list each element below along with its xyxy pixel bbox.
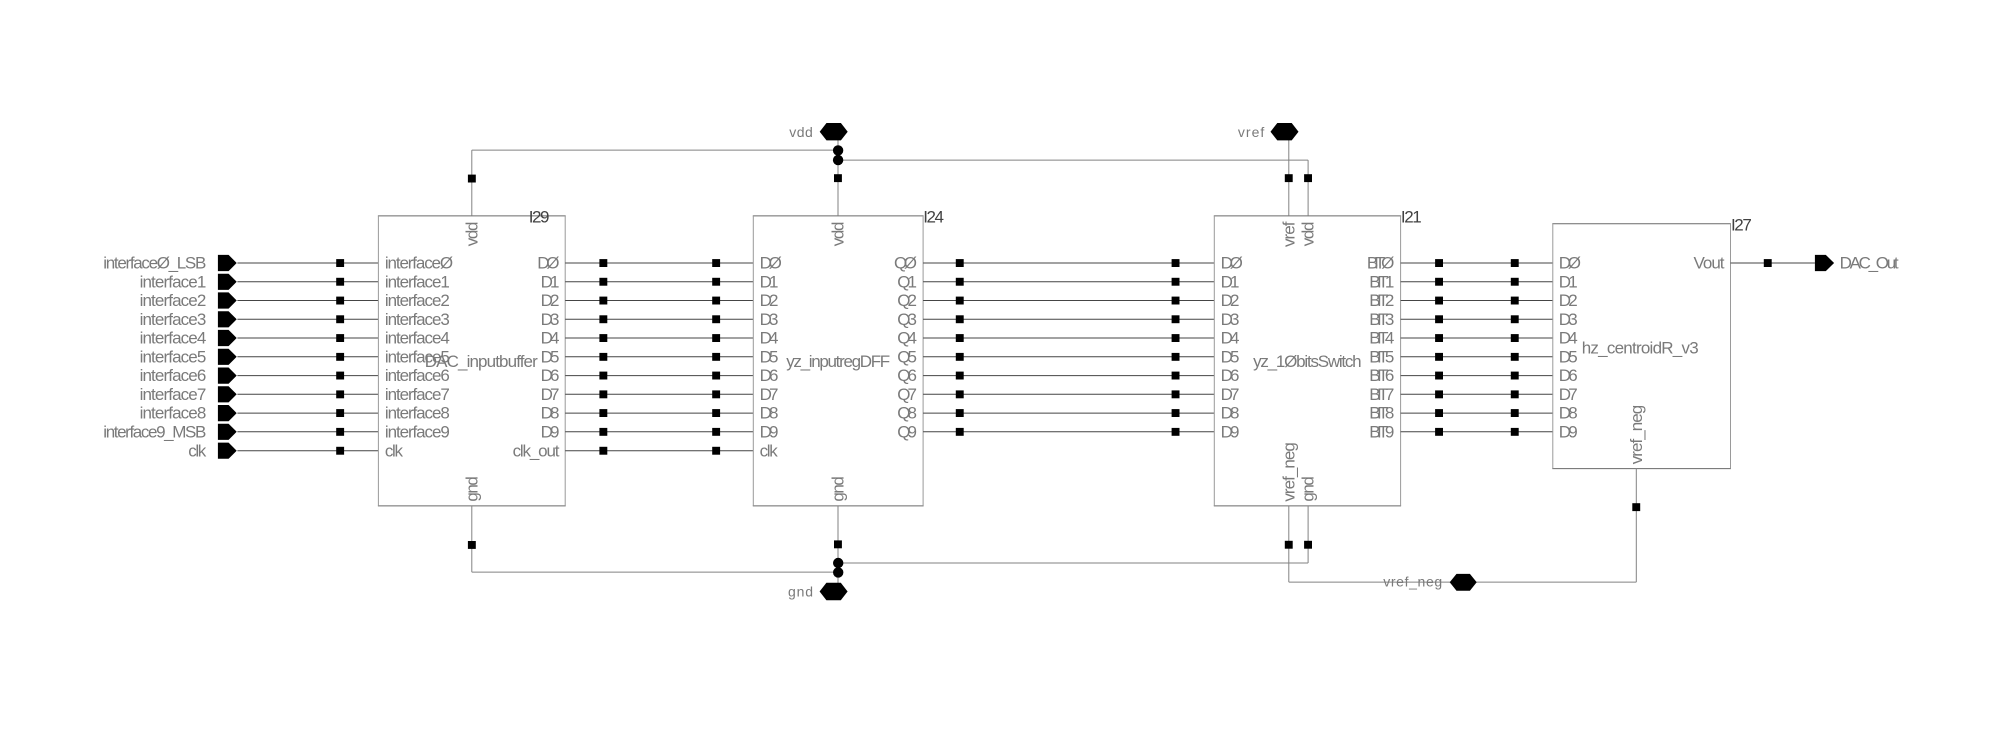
svg-text:clk: clk <box>385 441 404 460</box>
svg-text:D6: D6 <box>1221 366 1240 385</box>
junction square bus5 right <box>1172 353 1180 361</box>
wire gnd horizontal symbol to I21 <box>838 562 1308 564</box>
wire gnd fall I29 <box>471 506 473 572</box>
svg-text:vref: vref <box>1238 124 1265 140</box>
junction square bus1 right <box>1172 278 1180 286</box>
junction square bus9 right <box>1172 428 1180 436</box>
svg-text:interfaceØ_LSB: interfaceØ_LSB <box>103 254 206 273</box>
wire D1 I29 to I24 <box>565 281 753 283</box>
wire D8 I29 to I24 <box>565 412 753 414</box>
wire Q6/D6 I24 to I21 <box>923 375 1214 377</box>
svg-text:Q3: Q3 <box>897 310 917 329</box>
svg-text:D4: D4 <box>1559 329 1578 348</box>
wire interface6 to I29 <box>237 375 378 377</box>
svg-text:Q2: Q2 <box>897 291 917 310</box>
wire BIT2/D2 I21 to I27 <box>1401 300 1553 302</box>
junction square D3 right <box>712 315 720 323</box>
wire D9 I29 to I24 <box>565 431 753 433</box>
wire D4 I29 to I24 <box>565 337 753 339</box>
svg-text:D8: D8 <box>541 404 560 423</box>
input pin arrow interface1 <box>218 274 237 290</box>
junction square D1 right <box>712 278 720 286</box>
junction square out2 left <box>1435 297 1443 305</box>
power symbol vdd <box>820 123 848 140</box>
svg-text:D5: D5 <box>760 347 779 366</box>
svg-text:I27: I27 <box>1731 215 1752 234</box>
wire interface5 to I29 <box>237 356 378 358</box>
junction dot gnd lower <box>833 567 843 577</box>
wire vdd symbol stub <box>837 139 839 153</box>
junction square I21 vref_neg pin <box>1285 541 1293 549</box>
junction square out9 right <box>1511 428 1519 436</box>
input pin arrow interface2 <box>218 292 237 308</box>
svg-text:interface3: interface3 <box>385 310 450 329</box>
wire D2 I29 to I24 <box>565 300 753 302</box>
wire vdd riser I24 <box>837 150 839 216</box>
wire vdd riser I21 <box>1307 160 1309 216</box>
input pin arrow interface6 <box>218 368 237 384</box>
junction dot gnd upper <box>833 558 843 568</box>
junction square on wire interface2 <box>336 297 344 305</box>
junction square on wire interface4 <box>336 334 344 342</box>
junction square D5 left <box>599 353 607 361</box>
junction square D8 left <box>599 409 607 417</box>
svg-text:D1: D1 <box>1221 272 1240 291</box>
junction square out4 left <box>1435 334 1443 342</box>
svg-text:BIT4: BIT4 <box>1369 329 1394 348</box>
svg-text:D2: D2 <box>760 291 779 310</box>
svg-text:vdd: vdd <box>462 221 481 246</box>
svg-text:D1: D1 <box>1559 272 1578 291</box>
svg-text:interface9_MSB: interface9_MSB <box>103 422 206 441</box>
svg-text:vref_neg: vref_neg <box>1383 573 1442 589</box>
junction square bus2 left <box>956 297 964 305</box>
junction square bus7 right <box>1172 390 1180 398</box>
input pin arrow interface4 <box>218 330 237 346</box>
junction square out5 right <box>1511 353 1519 361</box>
wire vref_neg fall I21 <box>1288 506 1290 582</box>
wire Q4/D4 I24 to I21 <box>923 337 1214 339</box>
wire clk_out I29 to I24 <box>565 450 753 452</box>
wire vref_neg horizontal <box>1289 581 1637 583</box>
junction dot vdd upper <box>833 145 843 155</box>
junction square on wire interface8 <box>336 409 344 417</box>
junction square bus3 right <box>1172 315 1180 323</box>
input pin arrow clk <box>218 443 237 459</box>
junction square on wire interface9_MSB <box>336 428 344 436</box>
wire BIT1/D1 I21 to I27 <box>1401 281 1553 283</box>
junction square I29 gnd pin <box>468 541 476 549</box>
svg-text:D3: D3 <box>541 310 560 329</box>
power symbol vref <box>1271 123 1299 140</box>
wire BIT7/D7 I21 to I27 <box>1401 393 1553 395</box>
svg-text:clk: clk <box>760 441 779 460</box>
wire interface1 to I29 <box>237 281 378 283</box>
junction square out8 right <box>1511 409 1519 417</box>
svg-text:D8: D8 <box>1559 404 1578 423</box>
svg-text:BIT5: BIT5 <box>1369 347 1394 366</box>
svg-text:interface3: interface3 <box>140 310 207 329</box>
svg-text:interface2: interface2 <box>385 291 450 310</box>
input pin arrow interface7 <box>218 386 237 402</box>
wire BIT6/D6 I21 to I27 <box>1401 375 1553 377</box>
svg-text:D6: D6 <box>1559 366 1578 385</box>
wire interface3 to I29 <box>237 318 378 320</box>
svg-text:DAC_Out: DAC_Out <box>1840 254 1899 273</box>
junction square on wire interface0_LSB <box>336 259 344 267</box>
wire Q1/D1 I24 to I21 <box>923 281 1214 283</box>
svg-text:vdd: vdd <box>789 124 813 140</box>
junction square out3 left <box>1435 315 1443 323</box>
junction square I21 vref pin <box>1285 174 1293 182</box>
wire gnd fall I24 to symbol <box>837 506 839 584</box>
junction square bus6 right <box>1172 372 1180 380</box>
wire gnd fall I21 <box>1307 506 1309 563</box>
junction square bus1 left <box>956 278 964 286</box>
svg-text:D2: D2 <box>1559 291 1578 310</box>
junction square out3 right <box>1511 315 1519 323</box>
junction square I24 vdd pin <box>834 174 842 182</box>
svg-text:gnd: gnd <box>1299 476 1318 502</box>
wire interface8 to I29 <box>237 412 378 414</box>
svg-text:D4: D4 <box>541 329 560 348</box>
junction square I21 gnd pin <box>1304 541 1312 549</box>
wire BIT0/D0 I21 to I27 <box>1401 262 1553 264</box>
wire Q5/D5 I24 to I21 <box>923 356 1214 358</box>
svg-text:interface4: interface4 <box>140 329 207 348</box>
svg-text:vdd: vdd <box>829 221 848 246</box>
wire D5 I29 to I24 <box>565 356 753 358</box>
junction square on wire interface7 <box>336 390 344 398</box>
svg-text:vref_neg: vref_neg <box>1279 442 1298 502</box>
junction square bus7 left <box>956 390 964 398</box>
svg-text:interface8: interface8 <box>385 404 450 423</box>
block I21 yz_10bitsSwitch box <box>1214 215 1401 217</box>
svg-text:D7: D7 <box>760 385 779 404</box>
svg-text:D9: D9 <box>1221 422 1240 441</box>
junction square out9 left <box>1435 428 1443 436</box>
svg-text:interface5: interface5 <box>385 347 450 366</box>
svg-text:hz_centroidR_v3: hz_centroidR_v3 <box>1582 339 1699 358</box>
junction square bus6 left <box>956 372 964 380</box>
block I27 hz_centroidR_v3 box <box>1552 223 1731 225</box>
junction square clk_out right <box>712 447 720 455</box>
svg-text:BIT8: BIT8 <box>1369 404 1394 423</box>
svg-text:D6: D6 <box>541 366 560 385</box>
wire D3 I29 to I24 <box>565 318 753 320</box>
svg-text:BITØ: BITØ <box>1367 254 1395 273</box>
junction square bus2 right <box>1172 297 1180 305</box>
svg-text:D4: D4 <box>760 329 779 348</box>
svg-text:D3: D3 <box>760 310 779 329</box>
wire interface0_LSB to I29 <box>237 262 378 264</box>
junction square Vout <box>1764 259 1772 267</box>
junction square out8 left <box>1435 409 1443 417</box>
svg-text:interface6: interface6 <box>140 366 207 385</box>
svg-text:interface9: interface9 <box>385 422 450 441</box>
svg-text:D7: D7 <box>541 385 560 404</box>
junction square bus4 right <box>1172 334 1180 342</box>
junction square D6 right <box>712 372 720 380</box>
junction square out7 left <box>1435 390 1443 398</box>
junction square out0 left <box>1435 259 1443 267</box>
wire Q9/D9 I24 to I21 <box>923 431 1214 433</box>
svg-text:Q9: Q9 <box>897 422 917 441</box>
junction square bus4 left <box>956 334 964 342</box>
junction square D0 left <box>599 259 607 267</box>
svg-text:Q5: Q5 <box>897 347 917 366</box>
svg-text:interface8: interface8 <box>140 404 207 423</box>
input pin arrow interface5 <box>218 349 237 365</box>
svg-text:D8: D8 <box>760 404 779 423</box>
svg-text:DØ: DØ <box>760 254 782 273</box>
svg-text:D9: D9 <box>1559 422 1578 441</box>
junction square I21 vdd pin <box>1304 174 1312 182</box>
junction square out0 right <box>1511 259 1519 267</box>
input pin arrow interface3 <box>218 311 237 327</box>
wire vdd horizontal symbol to I21 <box>838 159 1308 161</box>
svg-text:BIT9: BIT9 <box>1369 422 1394 441</box>
svg-text:Q4: Q4 <box>897 329 917 348</box>
svg-text:D1: D1 <box>541 272 560 291</box>
wire vref riser I21 <box>1288 140 1290 216</box>
wire D6 I29 to I24 <box>565 375 753 377</box>
junction square D6 left <box>599 372 607 380</box>
svg-text:Q7: Q7 <box>897 385 917 404</box>
svg-text:interface1: interface1 <box>385 272 450 291</box>
junction square on wire interface6 <box>336 372 344 380</box>
junction square D0 right <box>712 259 720 267</box>
svg-text:BIT2: BIT2 <box>1369 291 1394 310</box>
block I24 yz_inputregDFF box <box>753 215 924 217</box>
svg-text:clk: clk <box>188 441 207 460</box>
svg-text:D2: D2 <box>541 291 560 310</box>
junction square D4 right <box>712 334 720 342</box>
block I29 DAC_inputbuffer box <box>378 215 566 217</box>
wire vdd horizontal I29 to symbol <box>472 149 838 151</box>
junction square out2 right <box>1511 297 1519 305</box>
svg-text:yz_inputregDFF: yz_inputregDFF <box>786 352 890 371</box>
svg-text:Q1: Q1 <box>897 272 917 291</box>
svg-text:I21: I21 <box>1401 207 1422 226</box>
wire BIT5/D5 I21 to I27 <box>1401 356 1553 358</box>
svg-text:gnd: gnd <box>829 476 848 502</box>
svg-text:vref: vref <box>1279 221 1298 247</box>
junction square I27 vref_neg pin <box>1632 503 1640 511</box>
wire vdd riser I29 <box>471 150 473 216</box>
svg-text:vdd: vdd <box>1299 222 1318 247</box>
wire D0 I29 to I24 <box>565 262 753 264</box>
junction square D9 left <box>599 428 607 436</box>
wire vref_neg riser I27 <box>1635 469 1637 582</box>
svg-text:DØ: DØ <box>1559 254 1581 273</box>
junction square D7 left <box>599 390 607 398</box>
svg-text:DØ: DØ <box>1221 254 1243 273</box>
wire Q7/D7 I24 to I21 <box>923 393 1214 395</box>
junction square bus0 left <box>956 259 964 267</box>
svg-text:D3: D3 <box>1221 310 1240 329</box>
svg-text:D5: D5 <box>1221 347 1240 366</box>
svg-text:interface6: interface6 <box>385 366 450 385</box>
input pin arrow interface8 <box>218 405 237 421</box>
wire interface4 to I29 <box>237 337 378 339</box>
junction square on wire interface1 <box>336 278 344 286</box>
svg-text:BIT7: BIT7 <box>1369 385 1394 404</box>
junction square on wire interface3 <box>336 315 344 323</box>
junction square bus0 right <box>1172 259 1180 267</box>
svg-text:interfaceØ: interfaceØ <box>385 254 453 273</box>
svg-text:interface4: interface4 <box>385 329 450 348</box>
wire BIT3/D3 I21 to I27 <box>1401 318 1553 320</box>
svg-text:gnd: gnd <box>462 476 481 502</box>
svg-text:D9: D9 <box>760 422 779 441</box>
junction square bus8 right <box>1172 409 1180 417</box>
svg-text:interface7: interface7 <box>385 385 450 404</box>
svg-text:D6: D6 <box>760 366 779 385</box>
svg-text:D2: D2 <box>1221 291 1240 310</box>
svg-text:interface2: interface2 <box>140 291 207 310</box>
svg-text:DØ: DØ <box>537 254 559 273</box>
svg-text:D7: D7 <box>1559 385 1578 404</box>
svg-text:Q8: Q8 <box>897 404 917 423</box>
input pin arrow interface0_LSB <box>218 255 237 271</box>
wire BIT4/D4 I21 to I27 <box>1401 337 1553 339</box>
junction square D1 left <box>599 278 607 286</box>
junction square D4 left <box>599 334 607 342</box>
wire clk to I29 <box>237 450 378 452</box>
junction square clk_out left <box>599 447 607 455</box>
svg-text:BIT1: BIT1 <box>1369 272 1394 291</box>
svg-text:interface1: interface1 <box>140 272 207 291</box>
svg-text:D1: D1 <box>760 272 779 291</box>
wire Q0/D0 I24 to I21 <box>923 262 1214 264</box>
junction square bus3 left <box>956 315 964 323</box>
svg-text:vref_neg: vref_neg <box>1627 405 1646 465</box>
junction square bus9 left <box>956 428 964 436</box>
wire D7 I29 to I24 <box>565 393 753 395</box>
svg-text:I29: I29 <box>529 207 550 226</box>
svg-text:clk_out: clk_out <box>513 441 560 460</box>
svg-text:D4: D4 <box>1221 329 1240 348</box>
wire gnd horizontal I29 to symbol <box>472 571 838 573</box>
wire Q8/D8 I24 to I21 <box>923 412 1214 414</box>
svg-text:Q6: Q6 <box>897 366 917 385</box>
junction square D7 right <box>712 390 720 398</box>
wire interface9_MSB to I29 <box>237 431 378 433</box>
junction square out1 left <box>1435 278 1443 286</box>
wire Q3/D3 I24 to I21 <box>923 318 1214 320</box>
svg-text:D7: D7 <box>1221 385 1240 404</box>
svg-text:BIT6: BIT6 <box>1369 366 1394 385</box>
junction square D5 right <box>712 353 720 361</box>
junction square I24 gnd pin <box>834 540 842 548</box>
power symbol vref_neg <box>1450 574 1477 591</box>
junction square D9 right <box>712 428 720 436</box>
svg-text:D5: D5 <box>541 347 560 366</box>
svg-text:D8: D8 <box>1221 404 1240 423</box>
input pin arrow interface9_MSB <box>218 424 237 440</box>
wire Q2/D2 I24 to I21 <box>923 300 1214 302</box>
output pin arrow DAC_Out <box>1815 255 1834 271</box>
junction square D2 left <box>599 297 607 305</box>
junction dot vdd lower <box>833 155 843 165</box>
junction square out4 right <box>1511 334 1519 342</box>
junction square out7 right <box>1511 390 1519 398</box>
svg-text:D5: D5 <box>1559 347 1578 366</box>
svg-text:QØ: QØ <box>894 254 917 273</box>
power symbol gnd <box>820 583 848 600</box>
svg-text:gnd: gnd <box>788 583 813 599</box>
junction square bus8 left <box>956 409 964 417</box>
junction square out6 left <box>1435 372 1443 380</box>
junction square I29 vdd pin <box>468 175 476 183</box>
junction square D8 right <box>712 409 720 417</box>
wire BIT8/D8 I21 to I27 <box>1401 412 1553 414</box>
wire BIT9/D9 I21 to I27 <box>1401 431 1553 433</box>
svg-text:D9: D9 <box>541 422 560 441</box>
svg-text:yz_1ØbitsSwitch: yz_1ØbitsSwitch <box>1253 352 1362 371</box>
wire interface7 to I29 <box>237 393 378 395</box>
svg-text:I24: I24 <box>923 207 944 226</box>
svg-text:interface5: interface5 <box>140 347 207 366</box>
svg-text:D3: D3 <box>1559 310 1578 329</box>
junction square on wire interface5 <box>336 353 344 361</box>
junction square out1 right <box>1511 278 1519 286</box>
junction square out5 left <box>1435 353 1443 361</box>
wire Vout I27 to DAC_Out pin <box>1731 262 1815 264</box>
junction square out6 right <box>1511 372 1519 380</box>
svg-text:BIT3: BIT3 <box>1369 310 1394 329</box>
junction square D3 left <box>599 315 607 323</box>
junction square D2 right <box>712 297 720 305</box>
junction square bus5 left <box>956 353 964 361</box>
svg-text:interface7: interface7 <box>140 385 207 404</box>
wire interface2 to I29 <box>237 300 378 302</box>
svg-text:Vout: Vout <box>1694 254 1725 273</box>
junction square on wire clk <box>336 447 344 455</box>
